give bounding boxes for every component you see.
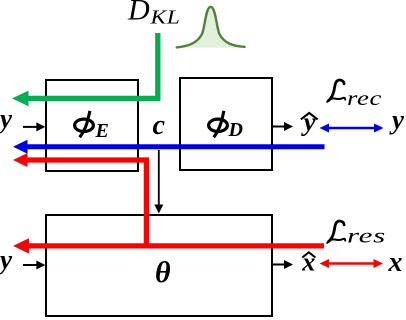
red residual wire upper + vertical <box>26 160 146 246</box>
svg-text:D: D <box>228 119 243 141</box>
svg-text:rec: rec <box>347 86 382 110</box>
svg-text:y: y <box>301 107 316 137</box>
gaussian prior curve stroke <box>177 7 245 48</box>
input y arrow (theta) <box>23 264 38 266</box>
red arrowhead upper <box>13 153 28 167</box>
svg-text:E: E <box>95 120 109 142</box>
green arrowhead <box>12 91 29 107</box>
label phi_D <box>209 111 228 137</box>
arrowhead c into theta <box>154 205 163 214</box>
output yhat arrow (decoder) <box>273 126 285 128</box>
svg-text:y: y <box>0 245 13 275</box>
label L_res script L <box>327 221 345 243</box>
encoder box phi_E <box>46 80 138 171</box>
red arrowhead lower <box>13 238 29 253</box>
svg-text:y: y <box>389 105 405 135</box>
input y arrow (encoder) <box>23 126 38 128</box>
wire c down into theta <box>158 150 160 206</box>
hat of yhat <box>301 113 318 119</box>
network box theta <box>46 215 272 316</box>
blue comparison double arrow <box>327 127 376 130</box>
blue reconstruction wire <box>26 144 325 149</box>
svg-text:θ: θ <box>155 256 171 289</box>
svg-text:x: x <box>388 247 403 278</box>
hat of xhat <box>302 252 315 257</box>
label L_rec script L <box>327 80 345 102</box>
red residual wire lower <box>26 243 324 248</box>
gaussian prior curve fill <box>177 7 245 48</box>
svg-text:c: c <box>153 110 166 141</box>
svg-text:res: res <box>347 224 386 248</box>
decoder box phi_D <box>180 78 272 170</box>
svg-text:KL: KL <box>149 7 180 29</box>
blue arrowhead <box>13 140 28 154</box>
svg-text:y: y <box>0 104 13 134</box>
output xhat arrow (theta) <box>273 264 285 266</box>
svg-text:D: D <box>127 0 150 27</box>
green KL wire <box>28 33 158 98</box>
red comparison double arrow <box>327 262 375 265</box>
label phi_E <box>75 111 94 137</box>
